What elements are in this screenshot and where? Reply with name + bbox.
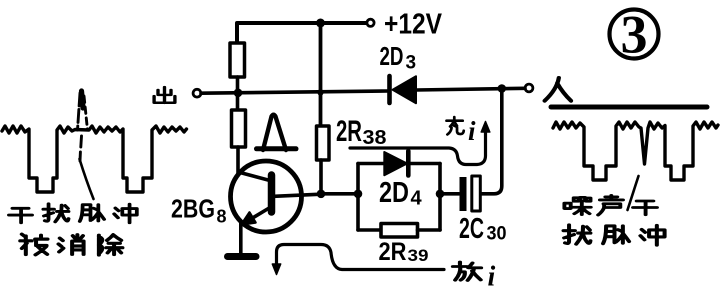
leader line right [628,176,639,210]
label OUT (chu) [154,87,175,103]
wire R2 to transistor base [236,147,240,175]
node top junction [316,19,325,28]
discharge current path (fang i) [272,245,444,275]
wire block bottom branch left [358,228,381,232]
svg-text:3: 3 [406,53,417,74]
svg-text:2D: 2D [380,41,404,71]
node wire crossing [317,89,323,95]
label IN (ru) [545,78,571,101]
charge current path (chong i) [350,122,490,165]
resistor R1 (upper divider) [230,43,245,77]
terminal +12V [367,19,374,26]
wire main horizontal (out to in) [201,88,525,93]
svg-text:2R: 2R [379,238,407,266]
text noise line1 [564,197,590,214]
leader line left [80,159,94,199]
resistor 2R38 [317,126,330,160]
wire 2R38 to collector node [319,160,323,194]
transistor Q 2BG8 [231,161,322,232]
wire block right vertical [438,164,442,231]
svg-text:2R: 2R [336,115,362,148]
node input junction [498,84,507,93]
badge circled 3 [610,10,659,59]
text interference pulse line1 [9,208,32,222]
wire collector node to block [321,192,358,196]
svg-text:2C: 2C [459,213,484,245]
wire block to capacitor [440,192,459,196]
resistor R2 (lower divider) [232,110,246,147]
waveform input (right) [553,122,718,180]
label charge (chong) [447,117,464,134]
svg-text:4: 4 [411,188,423,210]
wire top rail [237,23,366,43]
svg-text:i: i [488,262,496,290]
wire block top branch [358,162,440,166]
capacitor 2C30 [460,176,481,211]
waveform output (left) [2,126,187,192]
svg-text:8: 8 [217,207,227,227]
svg-text:30: 30 [487,224,507,245]
pulse symbol (lambda spike at base) [263,115,286,150]
label discharge (fang) [453,262,481,280]
svg-text:2BG: 2BG [171,194,215,224]
svg-text:38: 38 [363,127,387,149]
svg-text:+12V: +12V [384,9,443,41]
ground [228,253,257,260]
svg-text:2D: 2D [379,177,409,209]
terminal IN [525,84,533,92]
node block right [436,190,445,199]
resistor 2R39 [381,224,418,238]
wire block left vertical [356,164,360,231]
wire 2R38 feed vertical [319,23,323,126]
node block left [354,190,363,199]
wire block bottom branch right [418,228,441,232]
svg-text:39: 39 [408,246,429,265]
svg-text:3: 3 [621,5,648,65]
overline (input waveform rail) [551,105,707,110]
text noise line2 [563,225,590,244]
wire R1 to node [236,77,240,110]
text eliminated line2 [20,234,47,255]
node collector junction [317,190,326,199]
terminal OUT [193,89,201,97]
node base divider junction [234,89,243,98]
wire emitter to ground [239,222,243,254]
diode 2D3 [390,76,417,103]
diode 2D4 [384,151,408,176]
svg-text:i: i [468,116,476,146]
eliminated spike (dashed) [78,93,88,161]
wire capacitor to input node [481,90,502,194]
